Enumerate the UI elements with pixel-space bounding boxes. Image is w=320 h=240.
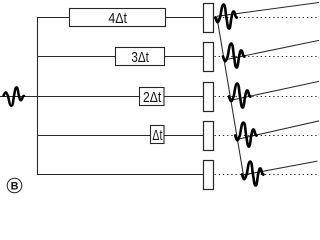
beam wavefront line [217,17,244,177]
wavefront ray row 1 [217,3,319,17]
wire delay 4dt to element 1 [166,17,204,19]
wire bus to delay 1dt [37,135,151,137]
wire bus to delay 4dt [37,17,70,19]
dotted axis row 3 [215,96,320,98]
dotted axis row 4 [215,135,320,137]
dotted axis row 1 [215,17,320,19]
wavefront ray row 4 [236,121,319,140]
transducer element 3 [204,83,214,112]
svg-text:4Δt: 4Δt [108,10,127,27]
wavefront ray row 5 [244,161,318,175]
dotted axis row 5 [215,174,320,176]
wavefront ray row 2 [224,40,319,60]
svg-text:B: B [11,180,19,192]
output wavelet row 1 [215,5,236,29]
svg-text:2Δt: 2Δt [143,89,162,106]
transducer element 2 [204,43,214,72]
wire delay 1dt to element 4 [164,135,204,137]
input wavelet [4,87,24,106]
input wire [0,96,140,98]
delay box 2dt [140,88,165,106]
output wavelet row 3 [229,84,250,108]
delay box 4dt [70,9,166,27]
dotted axis row 2 [215,56,320,58]
wire bus to delay 3dt [37,56,116,58]
output wavelet row 2 [223,44,244,68]
transducer element 4 [204,122,214,151]
wire bus to element 5 [37,174,204,176]
svg-text:3Δt: 3Δt [131,49,149,66]
output wavelet row 4 [235,123,256,147]
transducer element 5 [204,161,214,190]
delay box 1dt [151,126,165,144]
wavefront ray row 3 [229,81,319,100]
svg-text:Δt: Δt [152,127,163,144]
delay box 3dt [116,48,165,66]
bus wire [37,17,39,175]
wire delay 2dt to element 3 [164,96,204,98]
transducer element 1 [204,4,214,33]
wire delay 3dt to element 2 [165,56,204,58]
label B [7,178,22,193]
output wavelet row 5 [242,162,263,186]
